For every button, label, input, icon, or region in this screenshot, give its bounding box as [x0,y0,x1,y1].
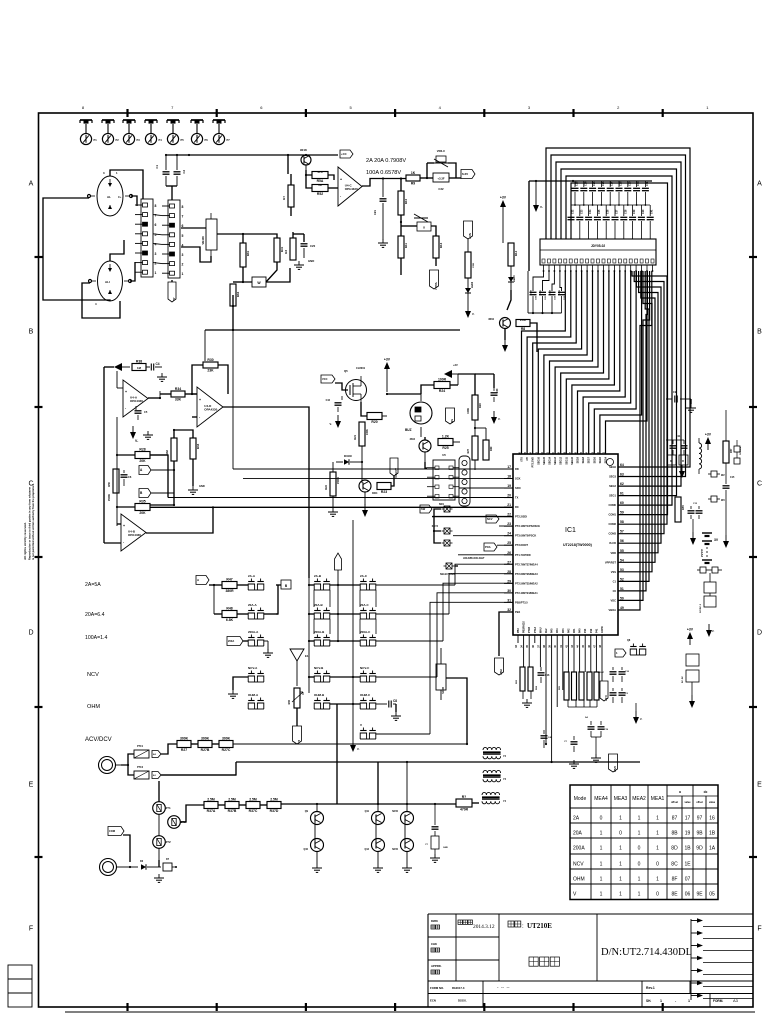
antenna E1 [290,649,309,686]
svg-text:SEG9: SEG9 [577,456,580,463]
capacitor C21 [373,179,387,241]
test terminal TP4 [145,120,162,145]
svg-text:NCV-B: NCV-B [314,666,324,670]
svg-text:PB4: PB4 [499,669,503,675]
wire [472,802,479,804]
svg-text:CHK: CHK [431,942,437,946]
svg-text:V-: V- [640,718,642,721]
svg-text:PT2.7/INT27/MEA4: PT2.7/INT27/MEA4 [515,562,538,566]
svg-text:C8: C8 [393,699,397,703]
power arrow V-4 [679,465,685,478]
capacitor C46 [425,827,448,863]
key KEY2a [432,525,453,546]
resistor R12 [433,236,443,258]
connector CN1 [135,199,157,277]
svg-text:1.2K: 1.2K [442,434,450,438]
power arrow V-7 [633,703,642,724]
ground [263,641,273,657]
svg-text:R26: R26 [478,403,482,408]
resistor R65 group [559,672,584,700]
capacitor C1 [155,156,170,186]
svg-text:DC/DC-4: DC/DC-4 [739,446,742,455]
ground [686,399,696,412]
resistor R20 [361,402,382,424]
svg-text:VADJ: VADJ [434,282,438,290]
resistor R21 [353,422,369,446]
capacitor C4 [146,362,162,371]
svg-text:20A=6.4: 20A=6.4 [85,612,105,618]
svg-text:E: E [29,782,34,789]
svg-text:R61: R61 [246,250,250,256]
wire [117,455,135,507]
wire [376,584,455,586]
svg-text:R57: R57 [730,448,733,453]
svg-text:C41: C41 [651,209,654,214]
svg-text:C9: C9 [673,390,677,394]
svg-text:4: 4 [155,242,157,246]
svg-text:D: D [670,460,672,463]
svg-text:R7: R7 [282,196,286,200]
svg-text:8: 8 [155,204,157,208]
svg-text:R62: R62 [236,291,240,297]
svg-text:SELECT/AVG: SELECT/AVG [440,573,455,576]
wire [523,691,531,699]
svg-text:+3.3F: +3.3F [437,177,445,181]
ground [328,508,338,516]
wire [192,416,197,418]
flag A [139,466,175,475]
capacitor C13 C14 [688,503,703,519]
svg-text:R50: R50 [107,481,111,486]
trimmer R60 [288,688,303,708]
resistor R30 [203,358,218,373]
wire [425,462,427,468]
svg-text:POA: POA [485,545,491,549]
svg-text:P1: P1 [94,138,98,142]
svg-text:1: 1 [600,892,603,898]
svg-text:SEG12: SEG12 [560,456,563,464]
wire [165,154,338,156]
capacitor C18 [610,688,629,703]
svg-text:R10: R10 [404,198,408,204]
flag E [293,726,302,744]
flag VCC2 [321,375,335,383]
svg-text:R21: R21 [353,434,357,439]
svg-text:SEG0: SEG0 [609,465,616,469]
DCDC block [700,582,716,613]
svg-text:+3V: +3V [500,196,507,200]
clamp jaw coil ALI1 [88,171,133,216]
wire [0,0,1,1]
svg-text:C44: C44 [326,399,331,402]
capacitor C6 [121,470,132,486]
svg-text:87: 87 [672,816,678,822]
svg-text:V-: V- [330,422,333,426]
svg-text:19: 19 [685,831,691,837]
svg-text:ECN: ECN [430,999,436,1003]
label 20A=6.4 [85,612,105,618]
wire [166,186,177,200]
svg-text:C4: C4 [156,362,160,366]
svg-text:AL: AL [107,195,111,199]
svg-text:2A=5A: 2A=5A [85,582,101,588]
wire [591,737,601,754]
svg-text:47K: 47K [317,170,323,174]
resistor R35 [135,499,150,515]
svg-text:SEG13: SEG13 [554,456,557,464]
svg-text:1: 1 [656,816,659,822]
svg-text:23K: 23K [207,369,214,373]
vflag SU [446,408,455,424]
resistor R52 [312,183,328,196]
trimmer VR2 [434,149,448,167]
svg-text:SH.: SH. [646,999,651,1003]
wire pin22 [432,516,513,518]
flag GND2 [609,754,618,772]
capacitor C5 [135,406,148,420]
capacitor C44 [326,396,342,412]
ground [522,699,532,707]
svg-text:COM2: COM2 [609,522,617,526]
resistor R41 [274,238,284,262]
power arrow V-2 [330,415,341,428]
svg-text:2A 20A 0.7908V: 2A 20A 0.7908V [366,158,406,164]
svg-text:PB3: PB3 [517,628,520,633]
capacitor C22 [433,173,449,191]
svg-text:IN4148: IN4148 [344,455,352,458]
svg-text:1: 1 [660,999,662,1003]
svg-text:1: 1 [656,877,659,883]
wire [401,178,461,191]
svg-text:3604: 3604 [410,438,416,441]
svg-text:R22: R22 [324,484,328,489]
svg-text:Rb0017-3: Rb0017-3 [452,986,465,990]
svg-text:C37: C37 [616,209,619,214]
svg-text:PT2.5/INT25/MEA2: PT2.5/INT25/MEA2 [515,581,538,585]
analog switch column C [360,574,376,709]
svg-text:1A: 1A [709,846,716,852]
vflag pin label [168,282,176,302]
opamp U4-C [338,167,362,206]
svg-text:RX: RX [515,505,519,509]
wire [376,703,384,705]
svg-text:P6: P6 [205,138,209,142]
svg-text:1: 1 [638,892,641,898]
transistor pair Q9 Q10 [303,804,323,872]
svg-text:3: 3 [155,252,157,256]
svg-text:R23: R23 [381,490,387,494]
wire [0,0,1,1]
svg-text:JT2: JT2 [166,840,172,844]
wire [110,170,143,199]
svg-text:1: 1 [600,862,603,868]
svg-text:PTC2: PTC2 [137,766,144,769]
svg-text:+3V: +3V [453,363,458,367]
svg-text:COM: COM [109,829,115,833]
svg-text:+CC: +CC [341,152,347,156]
wire [360,402,362,412]
wire long 775 [0,0,1,1]
title revision arrows [691,918,753,1000]
svg-text:20K: 20K [139,511,146,515]
wire [122,866,138,868]
svg-text:55: 55 [620,549,624,553]
svg-text:R27: R27 [181,748,187,752]
wire [0,0,1,1]
svg-text:PT2.2/SDI: PT2.2/SDI [515,515,527,519]
svg-text:E: E [297,740,301,742]
svg-text:1: 1 [656,846,659,852]
svg-text:SU: SU [450,419,454,423]
svg-text:E: E [757,782,762,789]
wire [233,677,248,690]
opamp U4-D [197,387,223,427]
svg-text:100A=1.4: 100A=1.4 [85,635,107,641]
title CHK cell [431,942,440,952]
resistor R10 [398,191,408,215]
svg-text:300K: 300K [201,736,210,740]
svg-text:a: a [679,790,681,794]
mode table header [574,790,716,804]
wire [425,442,460,462]
wire [361,446,363,483]
svg-text:APPRD.: APPRD. [431,964,442,968]
svg-text:C5: C5 [144,410,148,414]
svg-text:Q11: Q11 [365,810,370,813]
svg-text:Q5: Q5 [344,369,348,373]
svg-text:1500K: 1500K [337,477,340,484]
svg-text:SCCB: SCCB [442,687,445,694]
flag POA [484,543,497,551]
resistor R14 [508,243,518,266]
resistor R48 [222,606,237,622]
wire [386,393,421,395]
wire [150,461,175,506]
capacitor C9 [666,390,691,403]
wire pin20 [150,455,513,498]
wire [110,240,124,261]
capacitor C17 [619,667,630,682]
resistor R8 [516,318,530,331]
wire [0,0,1,1]
mode table grid [570,785,718,900]
svg-text:200A-A: 200A-A [248,630,259,634]
wire [458,374,475,395]
wire [158,781,160,802]
svg-text:9018: 9018 [300,148,307,152]
wire [181,228,211,262]
svg-text:LED2: LED2 [471,281,474,288]
wire [130,262,135,281]
wire [305,170,312,188]
capacitor group C40-C43 [528,271,566,314]
wire [332,462,334,508]
LED LED2 [465,278,474,293]
svg-text:2014.3.12: 2014.3.12 [473,924,495,930]
wire pin24 [453,535,513,537]
svg-text:R11: R11 [404,243,408,248]
ground [157,373,167,381]
power arrow V- [130,426,138,443]
svg-text:DSGX.: DSGX. [458,999,467,1003]
svg-text:9D: 9D [696,846,703,852]
svg-text:R60: R60 [288,699,291,704]
svg-text:B: B [757,329,762,336]
jack COM [100,859,123,876]
svg-text:R12: R12 [439,242,443,248]
inductor L3 [483,770,507,781]
resistor R47 [222,577,237,593]
jumper W4 [697,567,722,573]
svg-text:NCV: NCV [87,672,99,678]
title form no [430,985,510,990]
wire [335,383,348,390]
svg-text:6: 6 [155,223,157,227]
svg-text:V: V [360,723,362,727]
svg-text:V-: V- [357,747,360,751]
svg-text:5: 5 [182,234,184,238]
wire [0,0,1,1]
resistor R50 [107,469,119,501]
capacitor S4 C19 [585,716,609,737]
wire [243,640,248,642]
svg-text:9E: 9E [696,892,703,898]
svg-text:R: R [682,460,684,463]
wire pin18 [243,477,513,479]
wire [123,835,130,862]
svg-text:1B: 1B [709,831,716,837]
power arrow V-5 [690,519,696,545]
svg-text:offset: offset [671,800,678,804]
svg-text:OHM: OHM [573,877,585,883]
power arrow +3V4 [687,628,694,646]
wire [474,420,486,440]
wire [475,374,494,388]
svg-text:27: 27 [507,560,511,564]
svg-text:1: 1 [688,999,690,1003]
test terminal TP7 [213,120,230,145]
svg-text:V-: V- [540,205,543,209]
svg-text:1K: 1K [411,171,416,175]
wire [0,0,1,1]
connector CON3 [459,456,470,506]
svg-text:C33: C33 [580,209,583,214]
svg-text:Q10: Q10 [303,848,308,851]
ground [391,712,401,720]
resistor R9 [406,171,420,186]
wire [236,761,275,763]
svg-text:OPA4330: OPA4330 [130,399,143,403]
svg-text:OHM-A: OHM-A [248,693,259,697]
svg-text:PT3.6/CNT: PT3.6/CNT [515,543,528,547]
svg-text:0: 0 [638,846,641,852]
wire [474,460,476,470]
svg-text:DWN: DWN [431,919,438,923]
svg-text:2.5M: 2.5M [228,797,236,801]
svg-text:200A-C: 200A-C [360,630,371,634]
wire [0,0,1,1]
svg-text:OHM-C: OHM-C [360,693,371,697]
wire vertical feed [287,156,289,174]
svg-text:value: value [709,801,716,804]
svg-text:C: C [757,481,762,488]
svg-text:C21: C21 [373,210,377,216]
svg-text:PB4: PB4 [515,610,521,614]
svg-text:0: 0 [600,816,603,822]
wire [709,573,711,596]
svg-text:UT210E: UT210E [527,922,552,930]
wire [173,429,193,438]
svg-text:20A-B: 20A-B [314,603,324,607]
flag 3.3V [600,681,608,701]
svg-text:COM3: COM3 [609,532,617,536]
wire [121,754,134,775]
resistor R13 [465,239,475,278]
svg-text:PT1.7/CPWD: PT1.7/CPWD [515,553,531,557]
svg-text:20A-A: 20A-A [248,603,258,607]
flag SW [420,505,432,513]
svg-text:OPA4330: OPA4330 [128,533,141,537]
varistor JT2 [153,836,171,849]
capacitor C8 [384,699,397,712]
svg-text:PA3: PA3 [562,628,565,633]
wire [330,584,360,642]
svg-text:AAA2: AAA2 [700,549,704,557]
svg-text:300K: 300K [180,736,189,740]
wire [293,232,304,242]
wire [0,0,1,1]
svg-text:GND: GND [443,847,448,849]
svg-text:+3V: +3V [384,358,391,362]
inductor L1 [699,438,702,474]
svg-text:5: 5 [155,233,157,237]
svg-text:JDY05-02: JDY05-02 [591,244,606,248]
flag ACVDCV [390,458,398,478]
svg-text:R34: R34 [175,387,181,391]
svg-text:1E: 1E [684,862,691,868]
power arrow +3V [500,196,507,244]
svg-text:1: 1 [619,877,622,883]
svg-text:E1: E1 [305,654,309,658]
svg-text:SEG10: SEG10 [571,456,574,464]
svg-text:VDC: VDC [611,598,617,602]
capacitor C10 [598,667,617,682]
wire pin19 [459,487,513,489]
power arrow V-n [465,293,475,318]
resistor R66 group [587,672,599,700]
svg-text:SEG7: SEG7 [588,456,591,463]
svg-text:offset: offset [696,801,703,804]
trimmer VR3 [414,214,431,231]
svg-text:B: B [29,329,34,336]
IC U5 [433,453,455,500]
svg-text:D: D [28,630,33,637]
wire [205,295,460,361]
svg-text:R8: R8 [521,327,525,331]
svg-text:100R: 100R [438,377,447,381]
title rev [646,986,655,990]
svg-text:26: 26 [507,551,511,555]
wire [0,0,1,1]
wire [243,234,277,282]
svg-text:VR2-C: VR2-C [437,149,445,153]
svg-text:R48: R48 [226,606,232,610]
power arrow V-3 [491,411,501,424]
flag VCC arrow [114,363,130,371]
capacitor C30 [491,388,500,402]
svg-text:VPP/RST: VPP/RST [605,560,617,564]
svg-text:COM0: COM0 [609,503,617,507]
